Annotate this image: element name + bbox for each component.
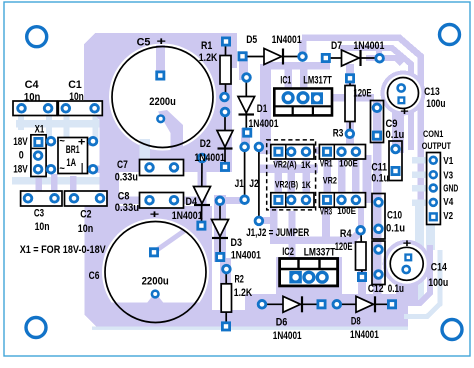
node C14 blob: [383, 240, 431, 288]
capacitor C7: [140, 160, 184, 176]
svg-text:C13: C13: [424, 86, 440, 98]
resistor R4: [361, 231, 362, 277]
wire: [100, 110, 119, 224]
svg-text:1N4001: 1N4001: [350, 329, 379, 341]
svg-text:C2: C2: [80, 209, 91, 221]
resistor R3: [349, 79, 351, 133]
svg-text:D1: D1: [257, 103, 268, 115]
capacitor C14 clearance: [387, 244, 427, 284]
svg-text:0.1u: 0.1u: [386, 223, 405, 235]
svg-text:10n: 10n: [24, 92, 41, 104]
svg-text:CON1: CON1: [423, 129, 444, 140]
wire: [263, 62, 330, 70]
svg-text:X1: X1: [35, 124, 45, 136]
capacitor C12: [372, 241, 385, 285]
potentiometer VR2(B) header: [271, 193, 314, 208]
capacitor C14: [390, 247, 423, 280]
svg-text:1N4001: 1N4001: [194, 152, 225, 164]
resistor R1: [225, 42, 227, 97]
svg-text:0.33u: 0.33u: [115, 172, 138, 184]
svg-text:0: 0: [19, 149, 24, 161]
svg-text:~: ~: [59, 136, 65, 148]
potentiometer VR2(A) header: [271, 145, 314, 160]
jumper J2: [258, 147, 260, 221]
svg-text:V3: V3: [443, 170, 453, 181]
capacitor C11: [389, 141, 402, 181]
svg-text:1.2K: 1.2K: [234, 287, 252, 299]
wire C5 negative patch: [158, 110, 183, 172]
op-amp IC1 LM317T regulator: [274, 89, 332, 116]
wire: [154, 226, 201, 252]
svg-text:1N4001: 1N4001: [249, 118, 279, 130]
diode D1: [245, 78, 247, 132]
svg-text:1N4001: 1N4001: [353, 40, 384, 52]
svg-text:100u: 100u: [426, 98, 445, 110]
capacitor C9: [371, 101, 384, 143]
svg-text:~: ~: [59, 163, 65, 175]
svg-text:C3: C3: [34, 208, 44, 220]
wire: [392, 110, 400, 152]
svg-text:100E: 100E: [337, 206, 356, 216]
svg-text:IC2: IC2: [282, 246, 294, 258]
svg-text:1.2K: 1.2K: [199, 52, 218, 64]
svg-text:C4: C4: [25, 79, 40, 91]
jumper J1: [244, 147, 246, 200]
svg-text:VR2(A): VR2(A): [273, 159, 296, 169]
svg-text:LM317T: LM317T: [303, 75, 332, 87]
svg-text:VR1: VR1: [320, 158, 333, 168]
capacitor C4: [13, 101, 57, 116]
diode D7: [326, 57, 379, 59]
svg-text:|: |: [81, 162, 84, 174]
op-amp IC2 LM337T regulator: [280, 259, 338, 286]
capacitor C6 outline: [105, 222, 206, 323]
svg-text:VR3: VR3: [320, 207, 332, 217]
svg-text:VR2(B): VR2(B): [275, 179, 298, 189]
wire: [16, 120, 100, 128]
svg-text:2200u: 2200u: [142, 276, 169, 288]
diode D4: [201, 158, 204, 225]
svg-text:V2: V2: [443, 211, 453, 222]
svg-text:2200u: 2200u: [149, 96, 176, 108]
svg-text:0.1u: 0.1u: [388, 283, 404, 295]
svg-text:C8: C8: [118, 191, 130, 203]
svg-text:+: +: [78, 136, 86, 148]
mounting hole bottom-left: [26, 318, 46, 338]
mounting hole top-left: [27, 27, 47, 47]
svg-text:1N4001: 1N4001: [231, 250, 261, 262]
svg-text:R3: R3: [333, 128, 344, 140]
bridge rectifier BR1: [58, 138, 88, 174]
svg-text:J1: J1: [235, 178, 244, 190]
svg-text:D2: D2: [200, 138, 211, 150]
svg-text:D6: D6: [276, 316, 288, 328]
wire: [302, 38, 421, 223]
svg-text:10n: 10n: [78, 223, 94, 235]
svg-text:0.1u: 0.1u: [371, 172, 389, 184]
capacitor C6 body: [102, 219, 209, 326]
svg-text:10n: 10n: [35, 221, 50, 233]
diode D8: [338, 303, 391, 305]
svg-text:C7: C7: [117, 159, 128, 171]
svg-text:LM337T: LM337T: [304, 246, 336, 258]
svg-text:C12: C12: [368, 283, 384, 295]
svg-text:1K: 1K: [301, 160, 311, 170]
svg-text:D4: D4: [186, 196, 198, 208]
diode D3: [219, 201, 221, 257]
capacitor C10: [372, 194, 385, 240]
svg-text:18V: 18V: [13, 164, 28, 176]
svg-text:+: +: [400, 106, 409, 118]
svg-text:120E: 120E: [353, 87, 371, 99]
svg-text:C14: C14: [431, 262, 448, 274]
wire: [415, 200, 424, 300]
svg-text:J1,J2 = JUMPER: J1,J2 = JUMPER: [246, 227, 309, 239]
capacitor C13: [388, 78, 419, 109]
wire: [259, 147, 323, 154]
wire C6 positive diagonal: [154, 231, 184, 252]
wire: [373, 100, 382, 296]
svg-text:OUTPUT: OUTPUT: [422, 141, 451, 152]
wire C5 positive neck: [156, 45, 165, 77]
potentiometer VR1 header: [319, 145, 365, 160]
svg-text:R2: R2: [235, 273, 244, 285]
svg-text:100E: 100E: [339, 158, 358, 168]
node pour around C6: [85, 206, 213, 327]
svg-text:V1: V1: [443, 156, 453, 167]
wire: [346, 64, 354, 148]
node bottom pour: [195, 294, 408, 327]
svg-text:0.1u: 0.1u: [386, 129, 405, 141]
mounting hole bottom-right: [442, 320, 462, 340]
wire: [218, 60, 232, 172]
capacitor C2: [65, 191, 108, 206]
diode D6: [263, 303, 321, 305]
svg-text:+: +: [403, 238, 412, 250]
svg-text:1N4001: 1N4001: [272, 34, 302, 46]
svg-text:D3: D3: [231, 237, 243, 249]
wire: [36, 178, 43, 199]
svg-text:R4: R4: [340, 228, 352, 240]
capacitor C5 body: [109, 44, 216, 151]
svg-text:J2: J2: [249, 178, 259, 190]
capacitor C1: [58, 101, 102, 116]
wire: [260, 64, 271, 147]
svg-text:D7: D7: [331, 40, 342, 52]
wire C6 negative patch: [100, 303, 211, 327]
wire: [108, 164, 228, 172]
node C13 blob: [381, 71, 426, 116]
mounting hole top-right: [440, 25, 460, 45]
svg-text:100u: 100u: [428, 277, 448, 289]
svg-text:+: +: [157, 36, 167, 48]
potentiometer VR2 dashed box: [267, 140, 316, 210]
svg-text:GND: GND: [443, 184, 458, 195]
svg-text:C10: C10: [387, 210, 402, 222]
diode D2: [224, 112, 226, 167]
svg-text:1A: 1A: [66, 157, 76, 169]
svg-text:C1: C1: [68, 79, 82, 91]
svg-text:+: +: [150, 209, 160, 221]
svg-text:0.33u: 0.33u: [115, 202, 139, 214]
svg-text:18V: 18V: [13, 136, 28, 148]
svg-text:1K: 1K: [302, 180, 311, 190]
resistor R2: [225, 270, 227, 326]
svg-text:1N4001: 1N4001: [273, 330, 302, 342]
svg-text:D5: D5: [246, 34, 257, 46]
svg-text:C5: C5: [137, 36, 151, 48]
svg-text:R1: R1: [201, 40, 212, 52]
capacitor C8: [140, 193, 184, 209]
capacitor C5 outline: [112, 47, 213, 148]
svg-text:VR2: VR2: [323, 175, 337, 186]
svg-text:X1 = FOR 18V-0-18V: X1 = FOR 18V-0-18V: [20, 244, 107, 256]
svg-text:V4: V4: [443, 197, 453, 208]
wire: [96, 197, 202, 205]
svg-text:IC1: IC1: [280, 75, 291, 87]
diode D5: [243, 56, 302, 58]
wire: [12, 177, 100, 185]
capacitor C3: [21, 191, 62, 206]
svg-text:D8: D8: [351, 316, 361, 328]
connector CON1: [427, 153, 441, 225]
node pour around C5: [84, 33, 237, 172]
svg-text:120E: 120E: [335, 241, 353, 253]
svg-text:1N4001: 1N4001: [172, 210, 203, 222]
svg-text:C6: C6: [89, 270, 100, 282]
potentiometer VR3 header: [319, 193, 365, 208]
capacitor C13 clearance: [385, 75, 422, 112]
wire: [239, 52, 248, 80]
svg-text:10n: 10n: [69, 91, 84, 103]
connector X1: [31, 135, 46, 177]
